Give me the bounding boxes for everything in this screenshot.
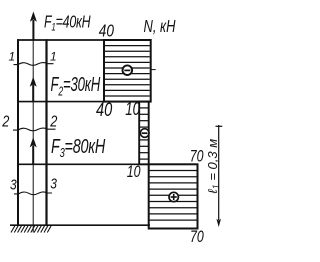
svg-text:2: 2: [1, 113, 9, 131]
ground hatching: [11, 226, 51, 233]
N diagram box 3 (70 kH, positive): [149, 164, 198, 228]
section 1-1 wavy break line: [14, 63, 54, 66]
svg-text:40: 40: [96, 99, 113, 120]
svg-text:F2=30кН: F2=30кН: [51, 73, 101, 99]
svg-text:N, кН: N, кН: [144, 17, 177, 37]
svg-text:F1=40кН: F1=40кН: [44, 12, 91, 34]
ground line: [10, 224, 150, 226]
dimension line e1: [216, 125, 223, 227]
section 2-2 wavy break line: [13, 128, 56, 131]
section 3-3 wavy break line: [14, 192, 52, 195]
svg-text:10: 10: [127, 163, 141, 181]
svg-text:2: 2: [49, 113, 57, 131]
force F2 arrow: [30, 77, 37, 101]
svg-text:10: 10: [125, 99, 140, 120]
force F3 arrow: [30, 137, 37, 164]
plus sign of box 3: [169, 192, 178, 201]
column left edge: [17, 39, 19, 226]
force F1 arrow: [30, 12, 37, 41]
svg-text:1: 1: [9, 49, 16, 63]
N diagram strip (10 kH, negative): [139, 102, 149, 165]
minus sign of box 1: [123, 65, 133, 75]
column axis line: [32, 40, 34, 233]
minus sign of strip: [140, 129, 149, 138]
column top edge line: [17, 39, 105, 41]
svg-text:3: 3: [50, 175, 57, 192]
tick right of box 1: [151, 69, 156, 71]
svg-text:40: 40: [99, 22, 114, 41]
column right edge: [45, 39, 47, 226]
svg-text:70: 70: [190, 148, 204, 166]
svg-text:F3=80кН: F3=80кН: [51, 134, 106, 160]
level line 2 (F2 application): [17, 101, 151, 103]
level line 3 (F3 application): [17, 163, 149, 165]
svg-text:70: 70: [190, 228, 204, 246]
svg-text:1: 1: [50, 49, 57, 63]
svg-text:3: 3: [10, 176, 17, 193]
N diagram box 1 (40 kH, negative): [104, 40, 151, 102]
